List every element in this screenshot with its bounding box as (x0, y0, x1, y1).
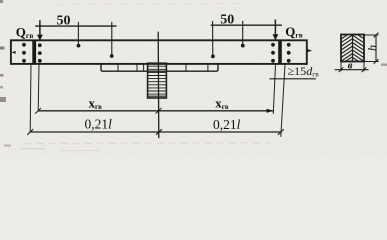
herringbone hatch right half (353, 35, 365, 62)
haunch bracket below beam (101, 64, 218, 71)
right force arrow Q (273, 20, 279, 41)
top-right dimension line 50 (211, 21, 282, 56)
rebar end arrow at left beam end (12, 51, 16, 54)
dimension line 0.21l (lower bottom) (27, 129, 283, 135)
rebar end arrow at right beam end (307, 49, 312, 52)
dimension line x (upper bottom) (35, 108, 273, 114)
right support plate (278, 40, 282, 64)
scan grain (0, 0, 1, 1)
scan smudges and specks (25, 4, 270, 144)
column ladder below beam center (148, 63, 167, 98)
anchorage dimension line (270, 78, 317, 80)
section centerline (352, 35, 354, 62)
center axis line (157, 32, 160, 139)
section h dimension (364, 33, 379, 64)
extension lines below left support (29, 64, 32, 132)
edge specks (0, 0, 387, 151)
herringbone hatch left half (341, 35, 353, 62)
left bolt dots (22, 43, 42, 63)
cross-section square (341, 35, 364, 62)
left support plate (32, 40, 36, 64)
top-left dimension line 50 (35, 22, 116, 55)
extension lines below right support (273, 64, 275, 113)
left force arrow Q (37, 20, 43, 41)
section b dimension (335, 62, 369, 73)
right bolt dots (271, 43, 291, 63)
beam outline (11, 40, 307, 64)
stirrup ticks in bracket (118, 64, 208, 71)
mid-span bar dots (77, 44, 245, 59)
